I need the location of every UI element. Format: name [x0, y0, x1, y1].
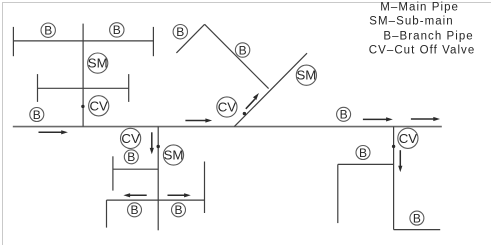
sub-main SM4 vertical right [393, 127, 395, 230]
branch end tick lower-right [204, 162, 206, 214]
flow arrow A4 [411, 117, 440, 121]
sub-main SM2 diagonal [234, 53, 307, 126]
label B9 [337, 107, 351, 121]
label SM1 [88, 53, 108, 73]
svg-text:CV–Cut Off Valve: CV–Cut Off Valve [369, 44, 476, 56]
branch end tick right [152, 27, 154, 56]
label B7 [128, 203, 142, 217]
branch pipe line right [338, 163, 394, 165]
branch pipe diagonal [205, 24, 269, 88]
svg-text:B: B [44, 24, 52, 38]
label B5 [235, 43, 249, 58]
junction dot J2 [243, 112, 246, 115]
svg-text:B: B [239, 43, 247, 57]
svg-text:B: B [359, 146, 367, 160]
flow arrow A2 [185, 118, 212, 122]
flow arrow A5 diagonal [246, 93, 259, 109]
svg-text:B: B [340, 108, 348, 122]
svg-text:B: B [33, 108, 41, 122]
branch corner drop left [106, 200, 108, 228]
branch end tick mid [112, 156, 114, 190]
valve CV2 [217, 97, 237, 117]
junction dot J4 [392, 145, 395, 148]
flow arrow A7 left [123, 193, 146, 197]
valve CV3 [121, 128, 141, 148]
flow arrow A1 [39, 130, 68, 134]
svg-text:SM–Sub-main: SM–Sub-main [369, 16, 453, 28]
sub-main SM1 vertical [82, 24, 84, 127]
flow arrow A8 right [168, 193, 191, 197]
svg-text:B: B [113, 23, 121, 37]
svg-text:B: B [176, 25, 184, 39]
svg-text:CV: CV [399, 131, 418, 146]
svg-text:SM: SM [88, 56, 108, 71]
label B3 [30, 108, 44, 122]
flow arrow A9 down [398, 150, 402, 172]
label B2 [110, 23, 124, 38]
branch end tick mid-left [37, 74, 39, 102]
main pipe M [13, 126, 442, 128]
valve CV1 [89, 96, 109, 116]
junction dot J1 [81, 105, 84, 108]
label SM2 [296, 65, 316, 85]
svg-text:B: B [127, 150, 135, 164]
junction dot J3 [157, 145, 160, 148]
branch pipe line mid-left [113, 168, 158, 170]
svg-text:CV: CV [121, 131, 140, 146]
sub-main SM3 vertical [157, 127, 159, 231]
svg-text:M–Main Pipe: M–Main Pipe [380, 1, 459, 13]
branch corner drop right [337, 164, 339, 223]
svg-text:SM: SM [164, 148, 184, 163]
flow arrow A6 down [150, 132, 154, 154]
label B4 [173, 25, 187, 40]
svg-text:B–Branch Pipe: B–Branch Pipe [383, 30, 473, 42]
flow arrow A3 [363, 117, 393, 121]
svg-text:CV: CV [90, 98, 109, 113]
svg-text:CV: CV [218, 100, 237, 115]
branch pipe line lower [107, 199, 205, 201]
label B8 [172, 203, 186, 217]
svg-text:B: B [413, 211, 421, 225]
sub-main SM4 bottom run [394, 229, 441, 231]
branch end tick diagonal [176, 24, 204, 53]
svg-text:B: B [174, 203, 182, 217]
branch end tick mid-right [128, 74, 130, 102]
label SM3 [163, 145, 183, 165]
branch pipe line B-top [13, 40, 153, 42]
label B1 [41, 23, 55, 38]
valve CV4 [398, 128, 418, 148]
label B6 [124, 150, 138, 164]
svg-text:B: B [130, 203, 138, 217]
label B10 [356, 146, 370, 160]
svg-text:SM: SM [297, 68, 317, 83]
branch end tick left [12, 27, 14, 56]
branch pipe line B-mid [38, 87, 129, 89]
label B11 [410, 211, 424, 225]
